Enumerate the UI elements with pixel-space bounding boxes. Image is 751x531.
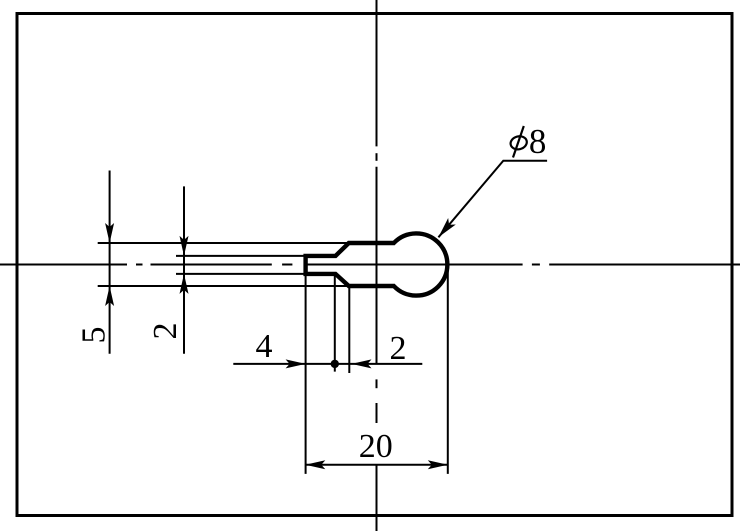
horizontal centerline — [0, 264, 740, 266]
dimension line 5 — [105, 171, 114, 354]
dimension line 20 — [305, 460, 448, 469]
svg-text:5: 5 — [76, 327, 113, 344]
phi symbol — [509, 126, 528, 158]
leader arrowhead — [435, 218, 456, 240]
svg-text:8: 8 — [529, 122, 547, 161]
junction dot — [331, 360, 339, 368]
svg-text:2: 2 — [390, 330, 407, 367]
dimension line 4 and 2 — [233, 359, 422, 368]
svg-text:2: 2 — [147, 323, 184, 340]
vertical centerline — [376, 0, 378, 531]
svg-text:4: 4 — [256, 328, 273, 365]
keyhole slot outline — [306, 233, 448, 295]
dimension line 2 (slot width) — [180, 186, 189, 353]
svg-text:20: 20 — [359, 428, 393, 465]
leader line phi8 — [438, 161, 547, 238]
extension lines — [98, 243, 448, 474]
